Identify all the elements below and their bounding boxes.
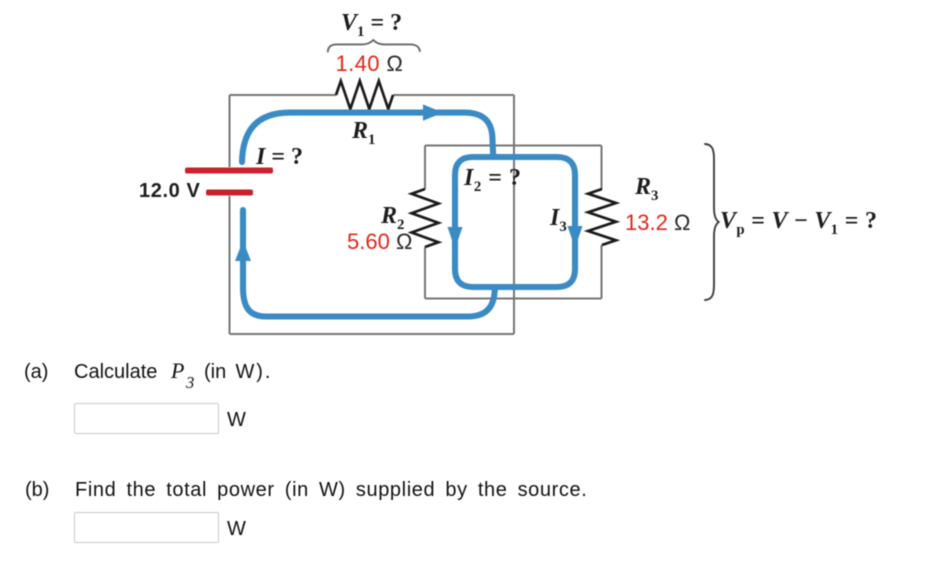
label R2 [381,204,404,233]
label 12.0 V battery voltage [139,181,200,201]
question (a) text W). [236,362,273,382]
label V1 = ? [341,11,402,40]
answer input box (a) [74,403,219,434]
brace over 1.40 ohm pointing up to V1 [328,40,420,52]
resistor R1 zigzag [336,81,393,109]
current arrowhead I3 (inner right branch, pointing down) [568,226,583,248]
wire outer rectangle bottom edge [230,333,515,335]
wire inner rectangle left edge with gap for R2 [424,146,426,299]
wire outer rectangle left edge with gap for battery [229,95,231,334]
battery negative plate (short red bar) [206,190,253,196]
unit W for (a) [227,410,246,430]
current path main loop upper (battery to inner box) [242,113,493,162]
label R1 [352,119,375,148]
question (a) math P3 [171,360,193,387]
value label 13.2 ohm [625,212,690,234]
question (a) marker [24,362,48,382]
label I3 [550,206,567,235]
unit W for (b) [227,519,246,539]
current path main loop lower (inner box to battery) [243,210,495,317]
wire inner rectangle right edge with gap for R3 [601,146,603,299]
label Vp = V - V1 = ? [720,209,877,238]
question (b) text [75,480,587,500]
question (a) text Calculate [74,362,157,382]
brace right for Vp across parallel section [705,144,719,300]
wire outer rectangle right edge [513,95,515,334]
current arrowhead I (left side, pointing up) [235,241,251,262]
resistor R3 zigzag [588,189,616,245]
question (b) marker [25,480,49,500]
current arrowhead I (top, pointing right) [423,104,443,120]
value label 5.60 ohm [347,231,412,253]
wire inner rectangle bottom edge [425,298,602,300]
wire outer rectangle top edge with gap for R1 [230,94,515,96]
label R3 [635,175,658,204]
resistor R2 zigzag [412,189,439,247]
label I = ? [256,145,303,169]
value label 1.40 ohm [336,53,404,75]
current path inner parallel loop [455,157,575,287]
wire inner rectangle top edge [425,145,602,147]
battery positive plate (long red bar) [185,168,273,174]
label I2 = ? [464,166,521,195]
question (a) text (in [204,362,226,382]
current arrowhead I2 (inner left branch, pointing down) [448,227,463,249]
answer input box (b) [74,512,219,543]
